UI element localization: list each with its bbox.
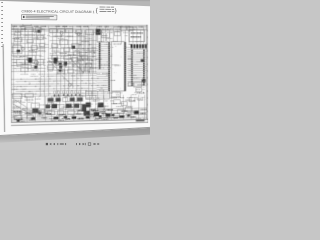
- svg-text:CX800-4 ELECTRICAL CIRCUIT DIA: CX800-4 ELECTRICAL CIRCUIT DIAGRAM 1: [21, 9, 94, 14]
- svg-text:): ): [115, 8, 117, 14]
- svg-text:}: }: [147, 119, 148, 123]
- svg-text:{: {: [96, 8, 98, 14]
